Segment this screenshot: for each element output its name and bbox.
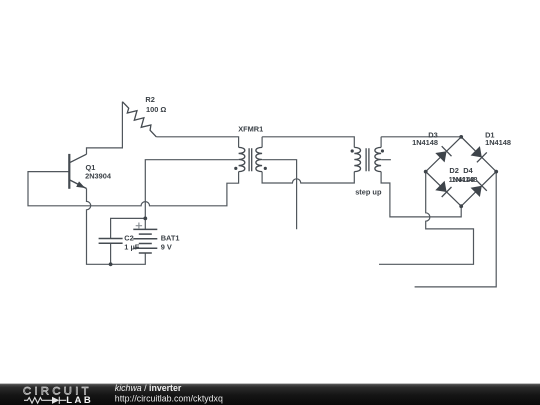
wire R2 to XFMR1 primary top <box>156 137 238 148</box>
svg-text:D4: D4 <box>463 166 473 175</box>
step up phase dots <box>351 149 354 152</box>
svg-text:9 V: 9 V <box>161 243 172 252</box>
diode bridge diamond <box>426 137 497 206</box>
wire XFMR1 secondary bottom to step-up primary bottom with hop <box>262 172 354 183</box>
bridge node dots <box>459 135 463 139</box>
diode D2 <box>435 181 451 197</box>
diode D4 <box>471 181 487 197</box>
wire step-up secondary top to bridge top <box>381 137 461 148</box>
svg-text:100 Ω: 100 Ω <box>146 105 166 114</box>
wire step-up secondary center tap stub <box>381 159 391 161</box>
footer bar <box>0 384 540 405</box>
transformer XFMR1 <box>239 147 263 171</box>
battery BAT1 <box>133 229 157 253</box>
transistor Q1 <box>69 154 86 189</box>
junction dot battery plus node <box>143 217 147 221</box>
svg-text:1 µF: 1 µF <box>124 243 139 252</box>
svg-text:XFMR1: XFMR1 <box>238 124 263 133</box>
wire base loop: Q1 base to XFMR1 primary bottom <box>28 172 239 206</box>
footer logo diode triangle <box>52 397 59 404</box>
capacitor C2 <box>99 239 123 244</box>
svg-text:R2: R2 <box>145 95 154 104</box>
svg-text:kichwa / inverter: kichwa / inverter <box>115 383 182 393</box>
wire BAT1 top lead <box>144 218 146 229</box>
svg-text:LAB: LAB <box>66 395 91 405</box>
wire C2 top to BAT1 plus node <box>111 218 146 238</box>
svg-text:C2: C2 <box>124 234 133 243</box>
diode D3 <box>435 146 451 162</box>
svg-text:1N4148: 1N4148 <box>485 138 511 147</box>
svg-text:2N3904: 2N3904 <box>85 172 112 181</box>
wire bridge left vertex output with hop <box>379 172 474 265</box>
XFMR1 phase dots <box>234 167 237 170</box>
svg-text:http://circuitlab.com/cktydxq: http://circuitlab.com/cktydxq <box>115 393 223 403</box>
junction dot bottom rail <box>109 262 113 266</box>
battery plus sign <box>136 223 142 229</box>
footer logo resistor-diode squiggle <box>24 397 66 404</box>
wire step-up secondary bottom to bridge bottom vertex <box>381 172 461 217</box>
wire bridge right vertex output <box>415 172 497 287</box>
wire XFMR1 secondary center tap dangling <box>262 160 297 230</box>
transformer step up <box>354 147 381 171</box>
svg-text:BAT1: BAT1 <box>161 234 180 243</box>
wire XFMR1 secondary top lead <box>261 137 263 148</box>
transistor Q1 emitter arrow <box>76 181 85 188</box>
svg-text:1N4148: 1N4148 <box>452 175 478 184</box>
wire C2 bottom lead <box>110 244 112 264</box>
wire XFMR1 primary center tap to battery plus <box>145 160 238 219</box>
resistor R2 <box>122 102 156 137</box>
svg-text:D2: D2 <box>449 166 458 175</box>
wire collector to R2 <box>87 102 123 155</box>
wire emitter down with hop to bottom rail <box>87 189 146 265</box>
svg-text:1N4148: 1N4148 <box>412 138 438 147</box>
diode D1 <box>471 146 487 162</box>
wire XFMR1 secondary top to step-up primary top <box>262 137 354 148</box>
svg-text:step up: step up <box>355 187 382 196</box>
